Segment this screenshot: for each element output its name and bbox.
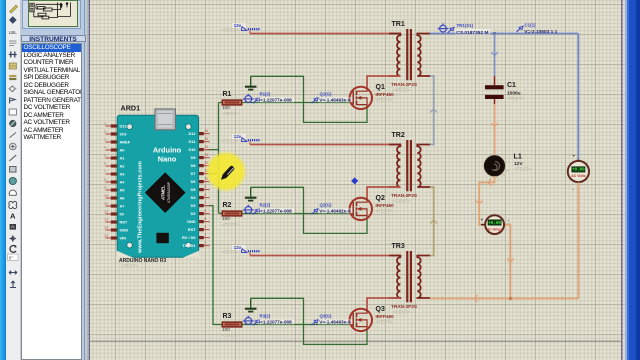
svg-text:A6: A6: [120, 196, 126, 201]
svg-text:Q2: Q2: [376, 195, 385, 202]
svg-text:A4: A4: [120, 180, 126, 185]
svg-text:R1(2): R1(2): [260, 91, 271, 96]
svg-text:RX / D0: RX / D0: [182, 235, 196, 240]
svg-text:+0.00: +0.00: [572, 169, 585, 173]
right window border: [625, 0, 640, 360]
AC ammeter: [481, 215, 511, 234]
wire Q2 source to ground: [251, 187, 367, 233]
svg-text:TR1: TR1: [392, 21, 405, 28]
svg-text:A0: A0: [120, 148, 125, 153]
resistor R1 100: [222, 91, 242, 116]
svg-text:<TEXT>: <TEXT>: [507, 96, 524, 101]
svg-text:D13: D13: [120, 124, 128, 129]
svg-text:D3: D3: [191, 203, 197, 208]
wire ammeter to return bus: [505, 225, 514, 299]
svg-text:+: +: [481, 217, 484, 222]
svg-text:14: 14: [205, 145, 209, 149]
svg-text:TX / D1: TX / D1: [182, 243, 196, 248]
svg-text:R1: R1: [223, 91, 232, 98]
wire R1 to Q1 gate: [242, 102, 354, 104]
svg-text:ARD1: ARD1: [121, 104, 141, 113]
svg-text:Arduino: Arduino: [153, 146, 182, 155]
toolbar icons: [0, 0, 22, 300]
svg-text:A7: A7: [120, 204, 125, 209]
svg-text:I=0.0187352 M: I=0.0187352 M: [456, 30, 488, 36]
svg-text:10: 10: [105, 193, 109, 197]
voltage probe Q2(G): [312, 202, 353, 214]
power terminal 12v (circuit 1): [222, 23, 260, 34]
toolbar column: [6, 0, 21, 360]
svg-text:Q1(G): Q1(G): [320, 91, 333, 96]
svg-text:5V: 5V: [120, 212, 125, 217]
svg-text:15: 15: [205, 137, 209, 141]
svg-text:IRFP460: IRFP460: [376, 203, 395, 208]
wire branch down to C1: [491, 34, 498, 86]
svg-text:V=-1.46493e-0: V=-1.46493e-0: [319, 98, 351, 103]
svg-text:TR1(S1): TR1(S1): [457, 23, 474, 28]
wire 12v to TR1 primary top: [250, 33, 400, 35]
svg-text:<TEXT>: <TEXT>: [393, 88, 410, 93]
svg-text:3: 3: [105, 137, 107, 141]
preview window: [22, 0, 81, 29]
wire Q3 source to ground: [251, 298, 367, 344]
current probe R3(2): [243, 313, 294, 325]
power terminal 12v (circuit 3): [222, 245, 260, 256]
svg-text:<TEXT>: <TEXT>: [393, 310, 410, 315]
svg-text:5: 5: [205, 217, 207, 221]
svg-text:AREF: AREF: [120, 140, 131, 145]
wire voltmeter bottom to return bus: [577, 182, 579, 298]
svg-text:100: 100: [222, 327, 230, 332]
transistor Q1 IRFP460: [350, 84, 394, 109]
svg-text:D9: D9: [191, 155, 197, 160]
sheet border left: [88, 0, 90, 360]
window left border: [0, 0, 6, 360]
svg-text:www.TheEngineeringProjects.com: www.TheEngineeringProjects.com: [138, 161, 144, 254]
svg-text:L1: L1: [514, 152, 522, 161]
svg-text:ATMEL: ATMEL: [161, 185, 166, 200]
svg-text:2: 2: [205, 241, 207, 245]
svg-text:ATMEGA328P: ATMEGA328P: [167, 182, 171, 203]
svg-text:Q2(G): Q2(G): [320, 202, 333, 207]
svg-text:D4: D4: [191, 195, 197, 200]
svg-text:4: 4: [205, 225, 207, 229]
voltage probe Q1(G): [312, 91, 353, 103]
svg-text:V=-2.10503 1 1: V=-2.10503 1 1: [524, 29, 557, 35]
svg-text:8: 8: [205, 193, 207, 197]
svg-text:IRFP460: IRFP460: [376, 314, 395, 319]
wire return bus TR3 secondary bottom: [430, 295, 578, 302]
svg-text:RST: RST: [188, 227, 196, 232]
instruments list: [21, 43, 82, 360]
svg-text:R2(2): R2(2): [260, 202, 271, 207]
svg-text:D10: D10: [188, 147, 195, 152]
sheet border bottom: [89, 340, 622, 342]
highlight cursor overlay: [205, 151, 247, 193]
resistor R3 100: [222, 313, 242, 338]
svg-text:<TEXT>: <TEXT>: [222, 250, 239, 255]
current probe R2(2): [243, 202, 294, 214]
svg-text:R3(2): R3(2): [260, 313, 271, 318]
wire Arduino D10 to R1/R2 net: [206, 103, 222, 214]
svg-text:7: 7: [105, 169, 107, 173]
voltage probe C1(1): [517, 23, 558, 35]
svg-text:VIN: VIN: [120, 236, 127, 241]
svg-text:C1: C1: [507, 82, 516, 89]
svg-text:A1: A1: [120, 156, 126, 161]
svg-text:+: +: [573, 154, 576, 159]
svg-text:+0.00: +0.00: [488, 222, 501, 226]
svg-text:D2: D2: [191, 211, 197, 216]
svg-text:11: 11: [105, 201, 108, 205]
transformer TR3: [389, 243, 430, 315]
svg-text:GND: GND: [120, 228, 129, 233]
svg-text:12: 12: [105, 209, 109, 213]
wire 12v to TR2 primary top: [250, 144, 400, 146]
svg-text:1: 1: [105, 121, 107, 125]
svg-text:TR2: TR2: [392, 132, 405, 139]
svg-text:Q1: Q1: [376, 84, 385, 91]
svg-text:D6: D6: [191, 179, 197, 184]
svg-text:TR3: TR3: [392, 243, 405, 250]
svg-text:RST: RST: [120, 220, 128, 225]
svg-text:Q3(G): Q3(G): [320, 313, 333, 318]
svg-text:I=1.22077e-008: I=1.22077e-008: [259, 320, 292, 325]
svg-text:R3: R3: [223, 313, 232, 320]
Arduino Nano ARD1: [105, 104, 210, 269]
svg-text:<TEXT>: <TEXT>: [121, 264, 138, 269]
resistor R2 100: [222, 202, 242, 227]
power terminal 12v (circuit 2): [222, 134, 260, 145]
transformer TR1: [389, 21, 430, 93]
wire Q2 drain to TR2 primary bottom: [367, 187, 400, 200]
svg-text:TRAN-2P2S: TRAN-2P2S: [391, 193, 417, 198]
wire Arduino D3 to R3: [206, 206, 222, 325]
wire R3 to Q3 gate: [242, 324, 354, 326]
ground (circuit 3): [245, 298, 257, 311]
svg-text:V=-1.46492e-0: V=-1.46492e-0: [319, 209, 351, 214]
wire C1 bottom to lamp L1: [491, 99, 498, 156]
svg-text:<TEXT>: <TEXT>: [222, 222, 239, 227]
svg-text:<TEXT>: <TEXT>: [376, 208, 393, 213]
wire 12v to TR3 primary top: [250, 255, 400, 257]
current probe R1(2): [243, 91, 294, 103]
svg-text:IRFP460: IRFP460: [376, 92, 395, 97]
svg-text:<TEXT>: <TEXT>: [393, 199, 410, 204]
svg-text:14: 14: [105, 225, 109, 229]
svg-text:8: 8: [105, 177, 107, 181]
svg-text:3V3: 3V3: [120, 132, 128, 137]
svg-text:D8: D8: [191, 163, 197, 168]
svg-text:GND: GND: [187, 219, 196, 224]
svg-text:<TEXT>: <TEXT>: [222, 111, 239, 116]
svg-text:-: -: [573, 187, 575, 192]
svg-text:A5: A5: [120, 188, 126, 193]
svg-text:TRAN-2P2S: TRAN-2P2S: [391, 82, 417, 87]
svg-text:3: 3: [205, 233, 207, 237]
svg-text:9: 9: [205, 185, 207, 189]
svg-text:D7: D7: [191, 171, 196, 176]
svg-text:Q3: Q3: [376, 306, 385, 313]
svg-text:V=-1.46493e-0: V=-1.46493e-0: [319, 320, 351, 325]
svg-text:13: 13: [105, 217, 109, 221]
svg-text:<TEXT>: <TEXT>: [376, 97, 393, 102]
svg-text:I=1.22077e-008: I=1.22077e-008: [259, 98, 292, 103]
wire Q3 drain to TR3 primary bottom: [367, 298, 400, 311]
wire TR1-TR2 secondary link: [430, 76, 437, 145]
svg-text:<TEXT>: <TEXT>: [222, 333, 239, 338]
wire R2 to Q2 gate: [242, 213, 354, 215]
svg-text:C1(1): C1(1): [525, 23, 537, 28]
svg-text:AC Volts: AC Volts: [571, 174, 585, 178]
svg-text:100: 100: [222, 216, 230, 221]
svg-text:16: 16: [205, 129, 209, 133]
svg-text:A3: A3: [120, 172, 126, 177]
wire Q1 drain to TR1 primary bottom: [367, 76, 400, 89]
svg-text:6: 6: [205, 209, 207, 213]
svg-text:<TEXT>: <TEXT>: [514, 167, 531, 172]
instruments header: [21, 35, 86, 43]
svg-text:Nano: Nano: [158, 155, 177, 164]
ground (circuit 1): [245, 76, 257, 89]
capacitor C1 1000u: [485, 82, 524, 101]
svg-text:9: 9: [105, 185, 107, 189]
wire lamp to AC ammeter: [476, 176, 495, 225]
svg-text:100: 100: [222, 105, 230, 110]
voltage probe Q3(G): [312, 313, 353, 325]
svg-text:<TEXT>: <TEXT>: [222, 139, 239, 144]
svg-text:AC Amps: AC Amps: [487, 227, 503, 231]
node junction ammeter/return: [509, 297, 512, 300]
svg-text:-: -: [508, 217, 510, 222]
sheet border right: [621, 0, 623, 360]
wire Arduino D7 jog: [206, 173, 219, 175]
svg-text:7: 7: [205, 201, 207, 205]
svg-text:<TEXT>: <TEXT>: [376, 319, 393, 324]
svg-text:6: 6: [105, 161, 107, 165]
svg-text:5: 5: [105, 153, 107, 157]
current probe TR1(S1): [438, 23, 491, 36]
transistor Q3 IRFP460: [350, 306, 394, 331]
svg-text:13: 13: [205, 153, 209, 157]
svg-text:A2: A2: [120, 164, 126, 169]
node junction at C1 branch: [493, 32, 496, 35]
transformer TR2: [389, 132, 430, 204]
wire TR1 secondary top to output bus (blue): [430, 34, 578, 162]
svg-text:I=1.22077e-008: I=1.22077e-008: [259, 209, 292, 214]
svg-text:15: 15: [105, 233, 109, 237]
svg-text:4: 4: [105, 145, 107, 149]
transistor Q2 IRFP460: [350, 195, 394, 220]
svg-text:D5: D5: [191, 187, 197, 192]
svg-text:D11: D11: [189, 139, 197, 144]
AC voltmeter: [568, 154, 589, 192]
svg-text:TRAN-2P2S: TRAN-2P2S: [391, 304, 417, 309]
ground (circuit 2): [245, 187, 257, 200]
wire Q1 source to ground: [251, 76, 367, 122]
node marker (blue diamond): [351, 177, 358, 184]
svg-text:2: 2: [105, 129, 107, 133]
wire TR2-TR3 secondary link: [430, 187, 437, 256]
svg-text:D12: D12: [188, 131, 196, 136]
svg-text:R2: R2: [223, 202, 232, 209]
svg-text:<TEXT>: <TEXT>: [222, 28, 239, 33]
lamp L1 12V: [484, 152, 531, 182]
